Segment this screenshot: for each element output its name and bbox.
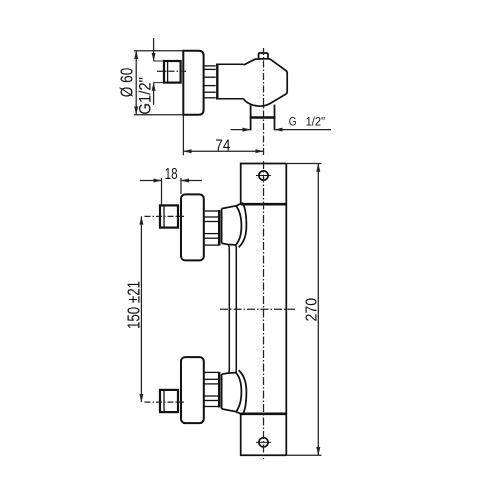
hex wall union (upper)	[160, 205, 178, 227]
screw hole bottom	[256, 438, 271, 447]
svg-text:18: 18	[165, 166, 178, 183]
wall bar: top mounting block	[241, 164, 287, 205]
upper inlet assembly	[160, 194, 246, 260]
wall bar: right edge	[285, 164, 287, 456]
wall escutcheon disc (side view)	[183, 51, 203, 115]
connection thread (lower)	[204, 372, 219, 406]
centerline hex (top view)	[157, 70, 188, 72]
valve body dome (lower)	[221, 374, 223, 409]
dimension 74	[183, 115, 263, 155]
label 150 ±21 (rotated)	[123, 281, 143, 329]
cartridge housing (top view)	[216, 64, 244, 99]
hex wall union (lower)	[160, 390, 178, 412]
escutcheon flange (upper)	[181, 194, 204, 260]
label G1/2" (rotated)	[136, 77, 154, 115]
top view: extension line top (Ø60)	[134, 50, 184, 52]
valve body dome (upper)	[221, 209, 223, 244]
dimension G 1/2" (outlet)	[231, 129, 332, 131]
lower inlet assembly (mirrored)	[160, 357, 246, 423]
dimension Ø 60 (vertical)	[135, 51, 137, 115]
hex extension lines	[153, 61, 164, 83]
shower outlet (downward)	[250, 105, 275, 131]
label Ø 60 (rotated)	[117, 68, 137, 98]
knob button	[259, 53, 269, 59]
top view: extension line bottom (Ø60)	[134, 114, 184, 116]
connection thread (upper)	[204, 211, 219, 245]
label 270 (rotated)	[303, 298, 320, 322]
svg-text:1/2": 1/2"	[306, 116, 326, 128]
inlet thread (top view)	[204, 66, 216, 98]
bar vertical centerline	[263, 161, 265, 459]
temperature knob (top view)	[244, 59, 288, 107]
dimension 270	[286, 164, 321, 456]
hex centerline (upper)	[145, 215, 185, 217]
svg-text:Ø 60: Ø 60	[117, 68, 137, 98]
hex wall union (top view)	[164, 61, 181, 83]
label 74	[215, 137, 230, 154]
knob axis centerline	[263, 48, 265, 155]
svg-text:270: 270	[303, 298, 320, 322]
svg-text:74: 74	[215, 137, 230, 154]
label 18	[165, 166, 178, 183]
dimension 150 ±21	[140, 216, 142, 402]
svg-text:150 ±21: 150 ±21	[123, 281, 143, 329]
escutcheon flange (lower)	[181, 357, 204, 423]
svg-text:G: G	[289, 116, 297, 128]
hex centerline (lower)	[145, 401, 185, 403]
dimension 18	[140, 178, 202, 205]
body tube between valves	[228, 245, 236, 375]
dimension G1/2" (vertical, top view)	[153, 38, 155, 105]
wall bar: bottom mounting block	[241, 414, 287, 455]
screw hole top	[256, 171, 271, 180]
svg-text:G1/2": G1/2"	[136, 77, 154, 115]
label G 1/2"	[289, 116, 325, 128]
mixer mid centerline	[220, 308, 295, 310]
